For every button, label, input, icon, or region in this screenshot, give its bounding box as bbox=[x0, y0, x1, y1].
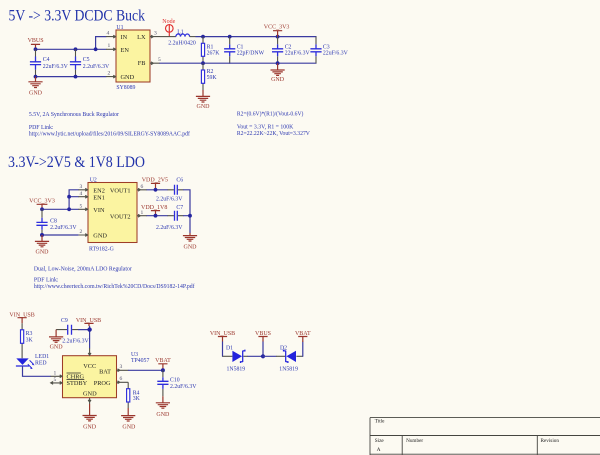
resistor R1 bbox=[201, 37, 220, 64]
wire D2 to VBAT bbox=[296, 355, 302, 357]
svg-text:GND: GND bbox=[197, 104, 211, 110]
svg-text:1N5819: 1N5819 bbox=[227, 367, 246, 373]
pin 5 STDBY bbox=[51, 377, 63, 384]
power port VDD_2V5 bbox=[142, 178, 168, 190]
svg-text:22uF/6.3V: 22uF/6.3V bbox=[43, 64, 69, 70]
power port VIN_USB (R3 top) bbox=[9, 313, 34, 324]
svg-text:1: 1 bbox=[54, 371, 57, 377]
pin 2 GND bbox=[106, 70, 116, 78]
junction C8 bottom bbox=[40, 233, 44, 237]
svg-text:VCC_3V3: VCC_3V3 bbox=[264, 25, 290, 31]
svg-text:GND: GND bbox=[29, 91, 43, 97]
ground symbol below U3 bbox=[83, 404, 97, 430]
svg-text:5: 5 bbox=[158, 57, 161, 63]
pin 1 EN bbox=[106, 43, 116, 51]
svg-text:GND: GND bbox=[83, 424, 97, 430]
svg-text:Title: Title bbox=[375, 419, 385, 425]
junction FB/R1/R2 bbox=[201, 61, 205, 65]
svg-text:Vout = 3.3V, R1 = 100K: Vout = 3.3V, R1 = 100K bbox=[237, 125, 294, 131]
svg-text:VIN: VIN bbox=[93, 207, 105, 214]
svg-text:PROG: PROG bbox=[94, 380, 111, 387]
svg-text:STDBY: STDBY bbox=[67, 380, 88, 387]
ground symbol below C4 bbox=[28, 77, 42, 97]
pin 3 LX bbox=[150, 30, 160, 38]
pin 6 PROG bbox=[117, 376, 129, 384]
svg-text:TP4057: TP4057 bbox=[131, 358, 149, 364]
svg-text:1: 1 bbox=[108, 43, 111, 49]
junction VBAT/C10 bbox=[161, 368, 165, 372]
ground symbol below C7 drop bbox=[183, 233, 197, 251]
svg-text:C5: C5 bbox=[83, 57, 90, 63]
svg-text:4: 4 bbox=[80, 191, 83, 197]
svg-text:EN: EN bbox=[121, 47, 130, 54]
svg-text:5: 5 bbox=[54, 377, 57, 383]
wire VOUT2 to C7 bbox=[147, 215, 168, 217]
svg-text:GND: GND bbox=[122, 424, 136, 430]
svg-text:6: 6 bbox=[120, 376, 123, 382]
svg-text:Number: Number bbox=[406, 438, 423, 444]
svg-text:2: 2 bbox=[80, 229, 83, 235]
svg-text:GND: GND bbox=[184, 245, 198, 251]
capacitor C2 bbox=[272, 37, 310, 64]
power port VBUS (diode) bbox=[255, 331, 271, 342]
power port VIN_USB (diode) bbox=[210, 331, 235, 342]
svg-text:RT9182-G: RT9182-G bbox=[89, 246, 114, 252]
svg-text:GND: GND bbox=[271, 77, 285, 83]
svg-text:3.3V->2V5 & 1V8 LDO: 3.3V->2V5 & 1V8 LDO bbox=[8, 154, 145, 171]
junctions VIN/EN bbox=[40, 195, 71, 211]
junctions on LX rail bbox=[201, 35, 279, 39]
resistor R4 bbox=[127, 382, 141, 408]
svg-text:Size: Size bbox=[375, 438, 385, 444]
pin 1 VOUT2 bbox=[137, 210, 147, 217]
node Node marker bbox=[162, 19, 175, 37]
power port VCC_3V3 (LDO) bbox=[29, 199, 55, 210]
svg-text:2.2uF/6.3V: 2.2uF/6.3V bbox=[50, 225, 77, 231]
svg-text:3K: 3K bbox=[26, 337, 34, 343]
capacitor C5 bbox=[70, 49, 110, 76]
svg-text:22pF/DNW: 22pF/DNW bbox=[237, 50, 265, 56]
ground symbol below C8 bbox=[35, 235, 49, 256]
svg-text:267K: 267K bbox=[207, 50, 221, 56]
svg-text:6: 6 bbox=[141, 184, 144, 190]
svg-text:EN1: EN1 bbox=[93, 194, 105, 201]
LED LED1 bbox=[16, 354, 49, 369]
capacitor C9 bbox=[56, 318, 89, 344]
svg-text:C6: C6 bbox=[176, 178, 183, 184]
pin 4 VCC (top) bbox=[88, 348, 91, 356]
title block frame bbox=[370, 418, 600, 455]
pin 5 FB bbox=[150, 57, 161, 65]
ground symbol below R2 bbox=[196, 90, 210, 110]
svg-text:2.2uF/6.3V: 2.2uF/6.3V bbox=[62, 338, 89, 344]
wire C7 to drop bbox=[184, 215, 191, 217]
resistor R3 bbox=[21, 323, 34, 358]
svg-text:FB: FB bbox=[138, 60, 146, 67]
svg-text:VDD_1V8: VDD_1V8 bbox=[141, 205, 167, 211]
svg-text:2.2uH/0420: 2.2uH/0420 bbox=[168, 40, 196, 46]
junction VIN_USB/C9 bbox=[87, 327, 91, 331]
capacitor C6 bbox=[156, 178, 184, 203]
svg-text:GND: GND bbox=[156, 412, 170, 418]
pin 4 IN bbox=[106, 30, 116, 38]
wire BAT to VBAT bbox=[129, 369, 163, 371]
svg-text:3: 3 bbox=[120, 364, 123, 370]
wire C8 bottom to GND pin bbox=[42, 234, 78, 236]
svg-text:3: 3 bbox=[154, 30, 157, 36]
svg-text:LX: LX bbox=[137, 34, 146, 41]
wire bottom rail to GND pin bbox=[36, 76, 107, 78]
IC U3 TP4057 body bbox=[63, 352, 150, 398]
junction VBUS/diodes bbox=[261, 354, 265, 358]
svg-text:RED: RED bbox=[35, 360, 47, 366]
svg-text:VOUT1: VOUT1 bbox=[110, 187, 131, 194]
pin 6 VOUT1 bbox=[137, 184, 147, 191]
ground symbol below R4 bbox=[121, 408, 136, 430]
svg-text:VDD_2V5: VDD_2V5 bbox=[142, 178, 168, 184]
wire VBUS rail bbox=[36, 37, 107, 50]
svg-text:GND: GND bbox=[50, 344, 64, 350]
wire VOUT1 to C6 bbox=[147, 189, 168, 191]
svg-text:VOUT2: VOUT2 bbox=[110, 214, 131, 221]
capacitor C4 bbox=[30, 49, 69, 76]
pin 5 VIN bbox=[78, 204, 88, 211]
wire VIN_USB down to VCC pin bbox=[89, 326, 91, 348]
power port VBAT (charger) bbox=[155, 358, 171, 370]
wire C6 to GND drop bbox=[184, 190, 191, 233]
svg-text:GND: GND bbox=[121, 74, 135, 81]
svg-text:D2: D2 bbox=[280, 345, 287, 351]
junction VDD_2V5 bbox=[154, 188, 158, 192]
svg-text:C4: C4 bbox=[43, 57, 50, 63]
svg-text:2.2uF/6.3V: 2.2uF/6.3V bbox=[83, 64, 110, 70]
capacitor C8 bbox=[36, 209, 77, 235]
svg-text:Dual, Low-Noise, 200mA LDO Reg: Dual, Low-Noise, 200mA LDO Regulator bbox=[34, 267, 132, 273]
svg-text:PDF Link:: PDF Link: bbox=[29, 125, 54, 131]
svg-text:A: A bbox=[377, 447, 381, 453]
power port VDD_1V8 bbox=[141, 205, 167, 216]
svg-text:Revision: Revision bbox=[541, 438, 560, 444]
power port VBUS bbox=[28, 38, 44, 49]
svg-text:R2=(0.6V)*(R1)/(Vout-0.6V): R2=(0.6V)*(R1)/(Vout-0.6V) bbox=[237, 111, 304, 118]
svg-text:VCC: VCC bbox=[83, 363, 96, 370]
svg-text:2.2uF/6.3V: 2.2uF/6.3V bbox=[156, 225, 183, 231]
pin 2 GND bbox=[78, 229, 88, 236]
diode D1 1N5819 bbox=[226, 345, 245, 372]
svg-text:R3: R3 bbox=[26, 331, 33, 337]
svg-text:2: 2 bbox=[108, 70, 111, 76]
svg-text:3: 3 bbox=[80, 184, 83, 190]
svg-text:5V -> 3.3V DCDC Buck: 5V -> 3.3V DCDC Buck bbox=[9, 7, 146, 24]
junctions on bottom rail bbox=[34, 75, 78, 79]
wire L1 to VCC rail bbox=[190, 36, 196, 38]
svg-text:5: 5 bbox=[80, 204, 83, 210]
svg-text:59K: 59K bbox=[207, 75, 218, 81]
wire VBUS drop bbox=[262, 342, 264, 356]
pin 1 CHRG bbox=[51, 371, 63, 378]
IC U2 RT9182-G body bbox=[88, 177, 137, 252]
svg-text:GND: GND bbox=[93, 233, 107, 240]
svg-text:LED1: LED1 bbox=[35, 354, 49, 360]
wire VBUS junction to D2 bbox=[263, 355, 276, 357]
svg-text:BAT: BAT bbox=[99, 368, 111, 375]
node junctions on VBUS rail bbox=[34, 47, 98, 51]
pin 3 EN2 bbox=[78, 184, 88, 191]
svg-text:U1: U1 bbox=[116, 25, 123, 31]
power port VIN_USB (C9) bbox=[76, 318, 101, 326]
svg-text:3K: 3K bbox=[133, 396, 141, 402]
resistor R2 bbox=[201, 63, 217, 90]
svg-text:22uF/6.3V: 22uF/6.3V bbox=[323, 50, 349, 56]
svg-text:SY8089: SY8089 bbox=[116, 85, 135, 91]
capacitor C10 bbox=[157, 370, 197, 396]
wire LX to L1 bbox=[160, 36, 176, 38]
svg-text:http://www.lytic.net/upload/fi: http://www.lytic.net/upload/files/2016/0… bbox=[29, 130, 190, 137]
svg-text:C8: C8 bbox=[50, 219, 57, 225]
capacitor C7 bbox=[156, 205, 184, 231]
pin 2 GND (bottom) bbox=[88, 398, 91, 404]
pin 4 EN1 bbox=[78, 191, 88, 198]
diode D2 1N5819 bbox=[279, 345, 298, 372]
svg-text:http://www.cheertech.com.tw/Ri: http://www.cheertech.com.tw/RichTek%20CD… bbox=[34, 283, 195, 290]
svg-text:IN: IN bbox=[121, 34, 128, 41]
wire LED to CHRG pin bbox=[23, 367, 51, 377]
wire D1 to VBUS junction bbox=[243, 355, 248, 357]
svg-text:1N5819: 1N5819 bbox=[279, 367, 298, 373]
svg-text:L1: L1 bbox=[177, 29, 184, 35]
junction C2 bottom bbox=[276, 61, 280, 65]
svg-text:2.2uF/6.3V: 2.2uF/6.3V bbox=[170, 384, 197, 390]
svg-text:VBUS: VBUS bbox=[28, 38, 44, 44]
IC U1 SY8089 body bbox=[116, 25, 150, 91]
capacitor C3 bbox=[310, 37, 348, 64]
wire VIN rail bbox=[42, 208, 78, 210]
svg-text:22uF/6.3V: 22uF/6.3V bbox=[285, 50, 311, 56]
ground symbol below C2 bbox=[271, 63, 285, 83]
svg-text:GND: GND bbox=[83, 390, 97, 397]
junction C7 right bbox=[188, 214, 192, 218]
svg-text:GND: GND bbox=[36, 250, 50, 256]
wire C9 to VIN_USB junction bbox=[79, 329, 90, 331]
svg-text:R2=22.22K~22K, Vout=3.327V: R2=22.22K~22K, Vout=3.327V bbox=[237, 131, 311, 137]
wire FB rail bbox=[160, 62, 230, 64]
junction VDD_1V8 bbox=[154, 214, 158, 218]
power port VCC_3V3 bbox=[264, 25, 290, 37]
svg-text:2.2uF/6.3V: 2.2uF/6.3V bbox=[156, 197, 183, 203]
svg-text:C7: C7 bbox=[176, 205, 183, 211]
svg-text:C9: C9 bbox=[61, 318, 68, 324]
svg-text:5.5V, 2A Synchronous Buck Regu: 5.5V, 2A Synchronous Buck Regulator bbox=[29, 112, 119, 118]
wire VIN_USB to D1 bbox=[222, 342, 224, 356]
ground symbol left of C9 bbox=[49, 330, 63, 351]
svg-text:EN2: EN2 bbox=[93, 187, 105, 194]
svg-text:D1: D1 bbox=[226, 345, 233, 351]
inductor L1 bbox=[168, 29, 196, 46]
capacitor C1 bbox=[224, 37, 265, 64]
power port VBAT (diode) bbox=[295, 331, 311, 342]
wire C2 bottom rail bbox=[230, 62, 316, 64]
svg-text:PDF Link:: PDF Link: bbox=[34, 277, 59, 283]
ground symbol below C10 bbox=[156, 396, 170, 418]
pin 3 BAT bbox=[117, 364, 129, 372]
svg-text:C10: C10 bbox=[170, 378, 180, 384]
svg-text:U2: U2 bbox=[90, 177, 97, 183]
wire EN vertical link bbox=[69, 190, 78, 210]
svg-text:4: 4 bbox=[107, 30, 110, 36]
